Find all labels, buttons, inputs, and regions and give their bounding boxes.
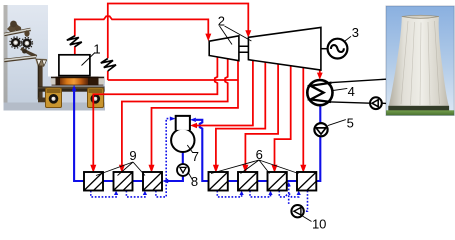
svg-text:2: 2 (218, 13, 225, 28)
svg-text:10: 10 (312, 217, 326, 232)
svg-text:7: 7 (192, 149, 199, 164)
svg-text:1: 1 (93, 41, 100, 56)
svg-text:4: 4 (348, 84, 355, 99)
svg-text:8: 8 (191, 174, 198, 189)
svg-text:5: 5 (347, 115, 354, 130)
svg-text:9: 9 (129, 148, 136, 163)
svg-text:6: 6 (256, 147, 263, 162)
svg-text:3: 3 (352, 25, 359, 40)
